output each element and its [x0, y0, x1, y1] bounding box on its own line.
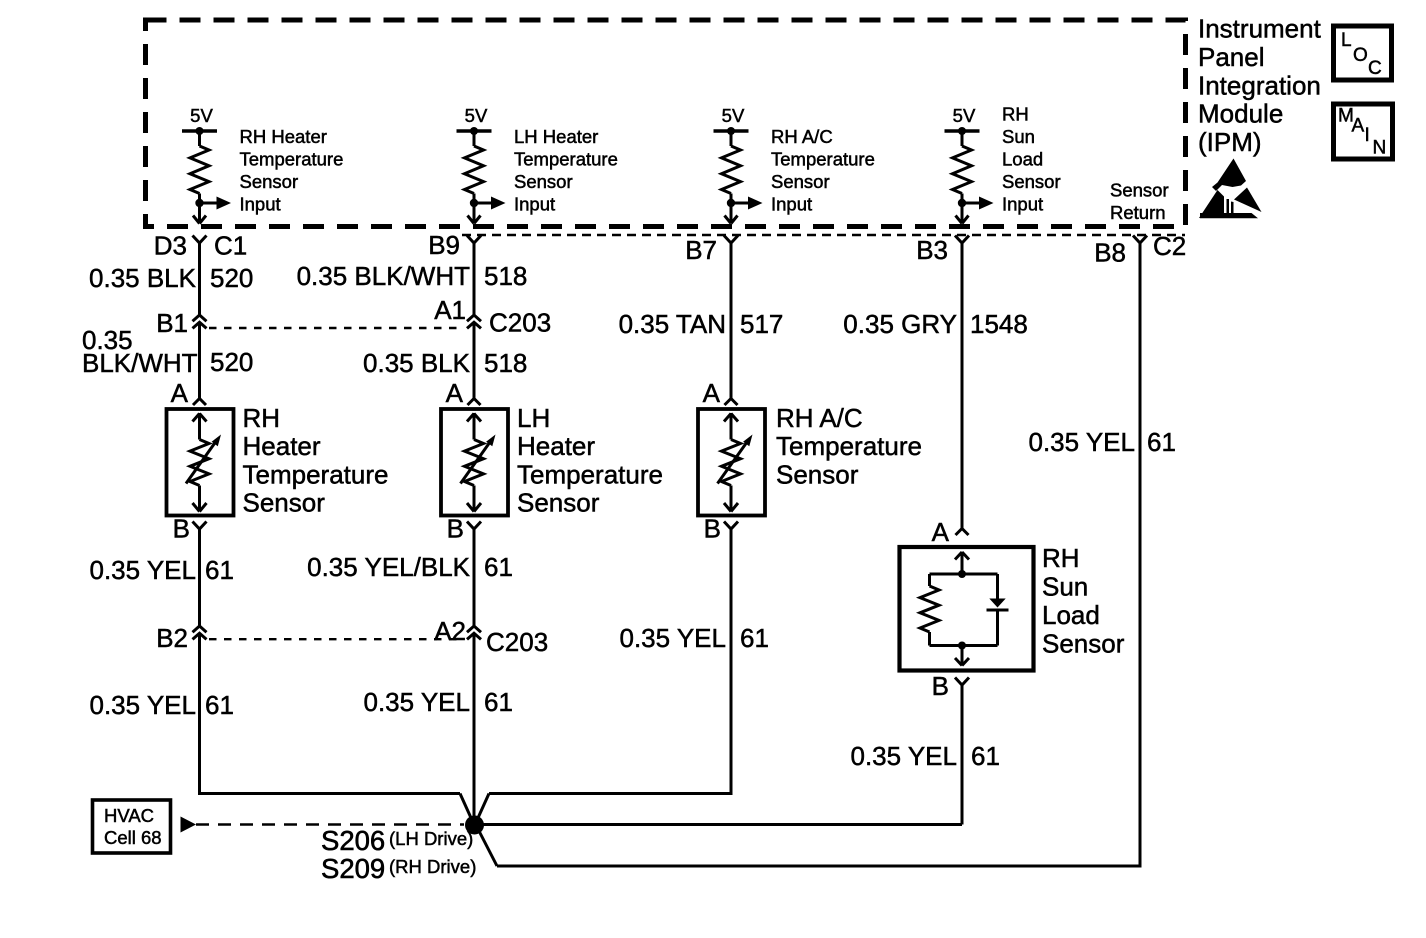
svg-text:C203: C203	[489, 308, 551, 338]
signal arrow RH A/C input	[731, 202, 749, 205]
svg-text:(IPM): (IPM)	[1198, 127, 1262, 157]
svg-text:A2: A2	[434, 616, 466, 646]
signal arrow RH heater input	[200, 202, 218, 205]
sensor RH sun load box	[900, 547, 1034, 671]
svg-text:A: A	[171, 378, 189, 408]
wire down to pin with arrowhead RH A/C input	[730, 203, 733, 223]
svg-text:B: B	[932, 671, 949, 701]
arrow from HVAC box	[181, 817, 197, 833]
sensor RH heater temperature box	[167, 409, 234, 516]
connector C2 boundary dashed line	[462, 234, 1185, 236]
svg-text:Instrument: Instrument	[1198, 14, 1322, 44]
svg-text:B1: B1	[156, 308, 188, 338]
svg-text:B3: B3	[916, 235, 948, 265]
signal arrow RH sun load input	[962, 202, 980, 205]
svg-text:B: B	[173, 514, 190, 544]
svg-text:5V: 5V	[190, 105, 213, 126]
svg-text:61: 61	[205, 555, 234, 585]
pin B symbol LH heater sensor	[467, 522, 481, 530]
svg-text:0.35 TAN: 0.35 TAN	[619, 309, 726, 339]
wire resistor to node LH heater input	[473, 194, 476, 204]
svg-text:61: 61	[740, 623, 769, 653]
thermistor symbol LH heater sensor	[473, 413, 476, 440]
wire W4 from pin B3 down	[961, 243, 964, 529]
svg-text:Sun: Sun	[1042, 572, 1088, 602]
pin A symbol LH heater sensor	[468, 399, 481, 406]
svg-text:Sensor: Sensor	[1042, 629, 1125, 659]
svg-text:Temperature: Temperature	[243, 460, 389, 490]
svg-text:518: 518	[484, 261, 527, 291]
pin B8 connector symbol	[1133, 236, 1147, 244]
svg-text:0.35 YEL: 0.35 YEL	[89, 555, 196, 585]
svg-text:0.35 YEL/BLK: 0.35 YEL/BLK	[307, 552, 471, 582]
wire W3 to splice	[730, 529, 733, 794]
wire from 5V rail to resistor LH heater input	[473, 131, 476, 146]
in-line connector C203 pin B2 symbol	[193, 626, 207, 632]
wire from 5V rail to resistor RH sun load input	[961, 131, 964, 146]
photodiode sun load sensor	[989, 599, 1005, 608]
svg-text:5V: 5V	[465, 105, 488, 126]
junction dot on 5V rail RH sun load input	[958, 127, 966, 135]
svg-text:Integration: Integration	[1198, 70, 1321, 100]
svg-text:Sensor: Sensor	[771, 171, 830, 192]
wire W1 connector to sensor A	[198, 322, 201, 398]
svg-text:RH: RH	[1002, 104, 1029, 125]
in-line connector C203 pin B1 symbol	[193, 315, 207, 321]
in-line connector C203 pin A2 symbol	[467, 626, 481, 632]
wire resistor to node RH sun load input	[961, 194, 964, 204]
svg-text:0.35 BLK: 0.35 BLK	[363, 348, 471, 378]
svg-text:61: 61	[971, 741, 1000, 771]
svg-text:RH: RH	[1042, 543, 1080, 573]
svg-text:Temperature: Temperature	[771, 149, 875, 170]
svg-text:0.35 YEL: 0.35 YEL	[363, 687, 470, 717]
svg-text:LH Heater: LH Heater	[514, 126, 598, 147]
wire down to pin with arrowhead RH heater input	[198, 203, 201, 223]
svg-text:A: A	[1352, 116, 1365, 137]
node dot LH heater input	[470, 199, 478, 207]
svg-text:518: 518	[484, 348, 527, 378]
wire down to pin with arrowhead RH sun load input	[961, 203, 964, 223]
svg-text:Sensor: Sensor	[243, 488, 326, 518]
svg-text:61: 61	[484, 687, 513, 717]
svg-text:Heater: Heater	[517, 431, 595, 461]
svg-text:Module: Module	[1198, 99, 1283, 129]
svg-text:Sensor: Sensor	[517, 488, 600, 518]
resistor pull-up RH sun load input	[953, 146, 972, 194]
svg-text:B: B	[447, 514, 464, 544]
wire from 5V rail to resistor RH A/C input	[730, 131, 733, 146]
pin A symbol RH heater sensor	[193, 399, 206, 406]
svg-text:61: 61	[205, 690, 234, 720]
thermistor symbol RH heater sensor	[198, 413, 201, 440]
svg-text:Input: Input	[514, 194, 555, 215]
svg-text:N: N	[1373, 138, 1387, 159]
thermistor symbol RH A/C sensor	[730, 413, 733, 440]
svg-text:BLK/WHT: BLK/WHT	[82, 348, 198, 378]
svg-text:0.35 YEL: 0.35 YEL	[1028, 427, 1135, 457]
5V supply rail bar RH heater input	[182, 129, 217, 133]
resistor pull-up RH heater input	[190, 146, 209, 194]
node dot RH heater input	[195, 199, 203, 207]
wire W2 sensor B down	[473, 529, 476, 626]
5V supply rail bar RH sun load input	[945, 129, 980, 133]
pin A symbol RH sun load sensor	[956, 529, 969, 536]
5V supply rail bar RH A/C input	[714, 129, 749, 133]
svg-text:Sun: Sun	[1002, 126, 1035, 147]
svg-text:Heater: Heater	[243, 431, 321, 461]
in-line connector C203 pin A1 symbol	[467, 315, 481, 321]
signal arrow LH heater input	[474, 202, 492, 205]
svg-text:0.35 GRY: 0.35 GRY	[843, 309, 957, 339]
wire W2 from pin B9 down	[473, 243, 476, 315]
wire from 5V rail to resistor RH heater input	[198, 131, 201, 146]
svg-text:S209: S209	[321, 853, 385, 884]
svg-text:Load: Load	[1042, 600, 1100, 630]
pin B symbol RH A/C sensor	[724, 522, 738, 530]
svg-text:0.35 YEL: 0.35 YEL	[619, 623, 726, 653]
photo resistor sun load sensor	[920, 586, 939, 632]
dashed line HVAC to splice	[196, 823, 464, 825]
wire down to pin with arrowhead LH heater input	[473, 203, 476, 223]
svg-text:HVAC: HVAC	[104, 805, 154, 826]
svg-text:B8: B8	[1094, 238, 1126, 268]
wire W3 from pin B7 down	[730, 243, 733, 399]
svg-text:0.35 BLK/WHT: 0.35 BLK/WHT	[297, 261, 471, 291]
svg-text:I: I	[1365, 125, 1370, 146]
svg-text:0.35 BLK: 0.35 BLK	[89, 263, 197, 293]
svg-text:RH Heater: RH Heater	[240, 126, 327, 147]
node dot RH A/C input	[727, 199, 735, 207]
svg-text:RH A/C: RH A/C	[771, 126, 833, 147]
LOC hyperlink box	[1334, 26, 1392, 80]
dashed connector line B2 to A2 (C203)	[209, 638, 464, 640]
svg-text:A: A	[932, 517, 950, 547]
resistor pull-up RH A/C input	[722, 146, 741, 194]
svg-text:Load: Load	[1002, 149, 1043, 170]
junction dot on 5V rail RH heater input	[196, 127, 204, 135]
sensor LH heater temperature box	[441, 409, 508, 516]
svg-text:520: 520	[210, 263, 253, 293]
down arrow inside sun load sensor	[961, 646, 964, 665]
svg-text:C: C	[1368, 58, 1382, 79]
wire W1 from pin D3 down	[198, 243, 201, 315]
svg-text:Temperature: Temperature	[240, 149, 344, 170]
svg-text:Sensor: Sensor	[1002, 171, 1061, 192]
dashed connector line B1 to A1 (C203)	[209, 327, 464, 329]
wire W2 to splice	[473, 633, 476, 818]
svg-text:O: O	[1353, 45, 1368, 66]
svg-text:Cell 68: Cell 68	[104, 827, 162, 848]
svg-text:0.35 YEL: 0.35 YEL	[850, 741, 957, 771]
svg-text:Input: Input	[1002, 194, 1043, 215]
svg-text:61: 61	[484, 552, 513, 582]
wire resistor to node RH A/C input	[730, 194, 733, 204]
svg-text:Input: Input	[240, 194, 281, 215]
pin B symbol RH sun load sensor	[955, 678, 969, 686]
svg-text:LH: LH	[517, 403, 550, 433]
svg-text:L: L	[1341, 30, 1352, 51]
svg-text:Input: Input	[771, 194, 812, 215]
node dot RH sun load input	[958, 199, 966, 207]
HVAC Cell 68 reference box	[93, 800, 171, 853]
sensor RH A/C temperature box	[698, 409, 765, 516]
pin B symbol RH heater sensor	[193, 522, 207, 530]
svg-text:A1: A1	[434, 295, 466, 325]
5V supply rail bar LH heater input	[457, 129, 492, 133]
svg-text:Sensor: Sensor	[1110, 180, 1169, 201]
svg-text:Panel: Panel	[1198, 42, 1265, 72]
module: Instrument Panel Integration Module (IPM) dashed outline	[146, 20, 1186, 227]
svg-text:(LH Drive): (LH Drive)	[389, 828, 473, 849]
pin B9 connector symbol	[467, 236, 481, 244]
svg-text:C1: C1	[214, 231, 247, 261]
svg-text:61: 61	[1147, 427, 1176, 457]
wire W1 to splice	[198, 633, 201, 793]
svg-text:S206: S206	[321, 825, 385, 856]
wire W4 to splice	[961, 685, 964, 825]
junction dot bottom sun load sensor	[958, 642, 966, 650]
svg-text:B9: B9	[428, 230, 460, 260]
ESD sensitive device symbol	[1212, 159, 1246, 192]
pin B3 connector symbol	[955, 236, 969, 244]
svg-text:C203: C203	[486, 627, 548, 657]
resistor pull-up LH heater input	[465, 146, 484, 194]
svg-text:B2: B2	[156, 623, 188, 653]
pin A symbol RH A/C sensor	[725, 399, 738, 406]
svg-text:RH A/C: RH A/C	[776, 403, 863, 433]
pin D3 connector symbol	[193, 236, 207, 244]
svg-text:B: B	[704, 514, 721, 544]
svg-text:A: A	[446, 378, 464, 408]
svg-text:RH: RH	[243, 403, 281, 433]
svg-text:(RH Drive): (RH Drive)	[389, 856, 476, 877]
splice S206/S209 dot	[465, 816, 484, 835]
svg-text:5V: 5V	[722, 105, 745, 126]
parallel network rails sun load sensor	[930, 573, 998, 576]
svg-text:C2: C2	[1153, 231, 1186, 261]
svg-text:Sensor: Sensor	[240, 171, 299, 192]
svg-text:520: 520	[210, 347, 253, 377]
junction dot on 5V rail LH heater input	[470, 127, 478, 135]
svg-text:Sensor: Sensor	[776, 460, 859, 490]
svg-text:Temperature: Temperature	[514, 149, 618, 170]
wire W1 sensor B down	[198, 529, 201, 626]
wire W2 connector to sensor A	[473, 322, 476, 398]
junction dot top sun load sensor	[958, 570, 966, 578]
wire W5 sensor return from pin B8	[1139, 243, 1142, 866]
svg-text:A: A	[703, 378, 721, 408]
svg-text:Return: Return	[1110, 202, 1166, 223]
svg-text:0.35 YEL: 0.35 YEL	[89, 690, 196, 720]
svg-text:Sensor: Sensor	[514, 171, 573, 192]
svg-text:517: 517	[740, 309, 783, 339]
svg-text:Temperature: Temperature	[776, 431, 922, 461]
pin B7 connector symbol	[724, 236, 738, 244]
wire and up arrow inside sun load sensor	[961, 552, 964, 574]
svg-text:D3: D3	[154, 231, 187, 261]
svg-text:Temperature: Temperature	[517, 460, 663, 490]
svg-text:B7: B7	[685, 235, 717, 265]
junction dot on 5V rail RH A/C input	[727, 127, 735, 135]
MAIN hyperlink box	[1334, 104, 1393, 159]
svg-text:1548: 1548	[970, 309, 1028, 339]
svg-text:5V: 5V	[953, 105, 976, 126]
wire resistor to node RH heater input	[198, 194, 201, 204]
